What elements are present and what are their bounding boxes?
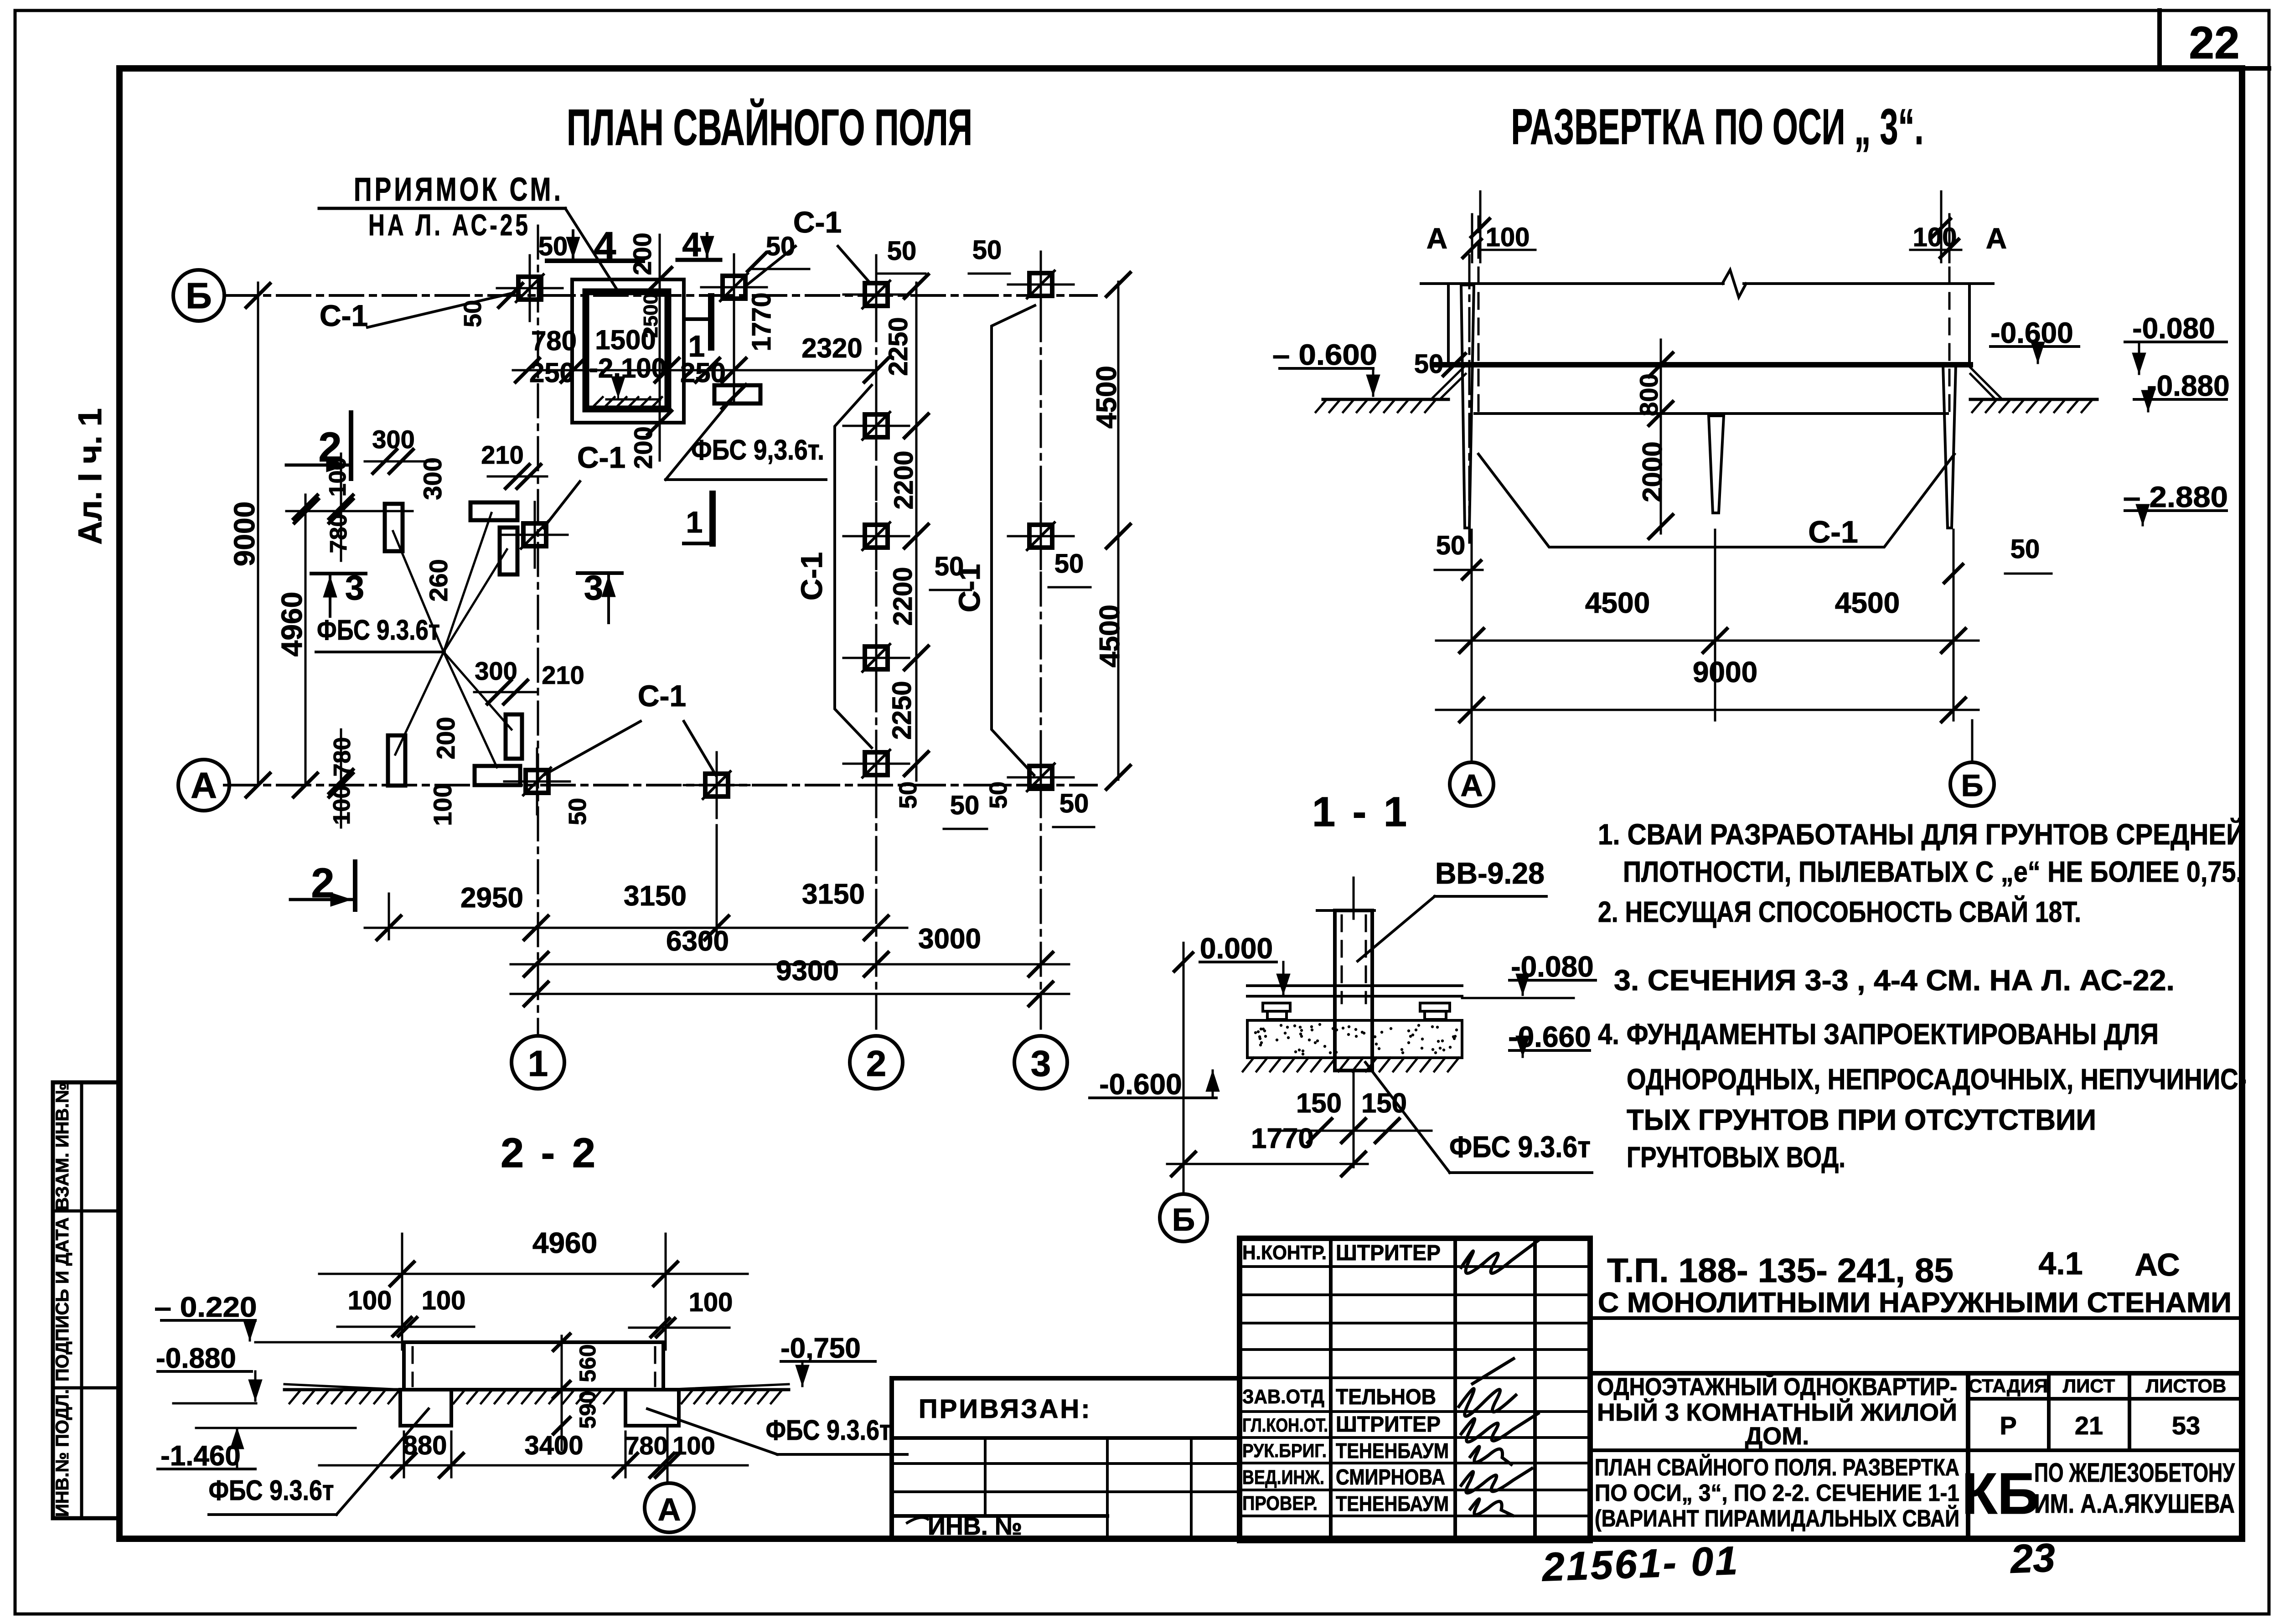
svg-text:2000: 2000 — [1637, 441, 1668, 502]
grid line 1 vertical dash-dot — [537, 226, 539, 1036]
svg-text:ВЗАМ. ИНВ.№: ВЗАМ. ИНВ.№ — [52, 1083, 72, 1210]
section mark 4 left — [547, 259, 643, 263]
axis line B section — [1183, 943, 1185, 1194]
svg-text:50: 50 — [1054, 549, 1084, 579]
svg-text:2250: 2250 — [887, 681, 917, 740]
svg-text:50: 50 — [766, 232, 796, 261]
dim 9000 vertical left — [257, 283, 259, 785]
svg-text:ТЕНЕНБАУМ: ТЕНЕНБАУМ — [1336, 1492, 1449, 1515]
razvertka wall left edge — [1447, 284, 1450, 365]
svg-text:150: 150 — [1361, 1088, 1407, 1118]
svg-text:3: 3 — [1031, 1043, 1051, 1084]
dim chain priyamok 780 1500 250 — [513, 369, 876, 372]
title block right frame — [1590, 1316, 2242, 1320]
svg-text:1770: 1770 — [747, 292, 776, 351]
svg-text:210: 210 — [481, 440, 523, 469]
grid circle 2 — [850, 1036, 903, 1089]
svg-text:ФБС 9,3.6т.: ФБС 9,3.6т. — [691, 434, 824, 466]
svg-text:3. СЕЧЕНИЯ 3-3 , 4-4 СМ. НА: 3. СЕЧЕНИЯ 3-3 , 4-4 СМ. НА Л. АС-22. — [1614, 964, 2175, 997]
svg-text:1. СВАИ РАЗРАБОТАНЫ ДЛЯ ГРУ: 1. СВАИ РАЗРАБОТАНЫ ДЛЯ ГРУНТОВ СРЕДНЕЙ — [1598, 817, 2245, 851]
svg-text:Б: Б — [1172, 1202, 1195, 1237]
svg-text:250: 250 — [529, 357, 575, 388]
razvertka left slope wedge — [1433, 367, 1463, 398]
svg-text:4960: 4960 — [275, 592, 308, 657]
razvertka ground line right with hatch — [1970, 398, 2097, 401]
dim 1770 vertical rotated — [733, 301, 735, 401]
title block signature table frame — [1240, 1238, 1590, 1541]
svg-text:250: 250 — [680, 357, 726, 388]
razvertka grillage bottom line — [1475, 412, 1948, 415]
dim 1770 in section — [1167, 1163, 1368, 1165]
sheet number box 22 top-right — [2157, 10, 2162, 68]
svg-text:4: 4 — [682, 226, 701, 264]
axis circle B — [173, 270, 224, 321]
svg-text:50: 50 — [1414, 349, 1444, 379]
axis circle A — [178, 760, 229, 811]
svg-text:ЗАВ.ОТД: ЗАВ.ОТД — [1242, 1386, 1324, 1408]
svg-text:50: 50 — [538, 232, 568, 261]
svg-text:100: 100 — [348, 1286, 392, 1315]
svg-text:4.1: 4.1 — [2038, 1246, 2083, 1281]
svg-text:-1.460: -1.460 — [160, 1440, 241, 1472]
svg-text:780: 780 — [329, 737, 356, 777]
svg-text:200: 200 — [431, 717, 460, 759]
svg-text:560: 560 — [575, 1344, 600, 1382]
dim chain 2250 2200 2200 2250 grid2 — [915, 283, 918, 781]
svg-text:ТЕНЕНБАУМ: ТЕНЕНБАУМ — [1336, 1439, 1449, 1463]
svg-text:ПЛАН СВАЙНОГО ПОЛЯ: ПЛАН СВАЙНОГО ПОЛЯ — [567, 99, 972, 156]
svg-text:ФБС 9.3.6т: ФБС 9.3.6т — [209, 1475, 334, 1506]
svg-text:РУК.БРИГ.: РУК.БРИГ. — [1242, 1440, 1327, 1461]
svg-text:ПРИВЯЗАН:: ПРИВЯЗАН: — [919, 1394, 1092, 1424]
svg-text:3: 3 — [584, 569, 603, 607]
axis A horizontal dash-dot — [224, 784, 1096, 786]
axis circle B section — [1160, 1194, 1207, 1241]
razvertka grillage top thick line — [1433, 362, 1970, 367]
grid line 2 vertical dash-dot — [875, 255, 878, 1036]
svg-text:С-1: С-1 — [1808, 515, 1858, 549]
svg-text:50: 50 — [972, 235, 1002, 265]
svg-text:(ВАРИАНТ ПИРАМИДАЛЬНЫХ СВАЙ: (ВАРИАНТ ПИРАМИДАЛЬНЫХ СВАЙ — [1595, 1505, 1959, 1532]
section marks A top of razvertka right — [1940, 191, 1943, 262]
svg-text:2. НЕСУЩАЯ СПОСОБНОСТЬ СВАЙ: 2. НЕСУЩАЯ СПОСОБНОСТЬ СВАЙ 18Т. — [1598, 895, 2081, 928]
svg-text:С-1: С-1 — [320, 299, 368, 332]
svg-text:23: 23 — [2009, 1535, 2056, 1581]
dim 200 2500 200 vertical at priyamok — [659, 235, 661, 460]
footing block left 2-2 — [400, 1390, 451, 1426]
svg-text:С-1: С-1 — [793, 205, 842, 239]
svg-text:100: 100 — [329, 786, 355, 825]
priyamok pit outer rectangle — [572, 279, 684, 423]
svg-text:СМИРНОВА: СМИРНОВА — [1336, 1465, 1445, 1490]
pile left axis dash line — [1478, 217, 1480, 414]
svg-text:ФБС 9.3.6т: ФБС 9.3.6т — [317, 615, 440, 646]
razvertka wall top line with break — [1421, 282, 1723, 285]
svg-text:210: 210 — [542, 661, 584, 689]
svg-text:780: 780 — [531, 326, 577, 356]
ground hatch under concrete bed — [1243, 1058, 1254, 1071]
intermediate pile row small dims 100 780 — [340, 454, 342, 561]
svg-text:100: 100 — [422, 1286, 466, 1315]
svg-text:А: А — [1986, 222, 2007, 255]
svg-text:3150: 3150 — [802, 879, 865, 910]
svg-text:Т.П. 188- 135- 241, 85: Т.П. 188- 135- 241, 85 — [1607, 1252, 1953, 1289]
svg-text:780: 780 — [326, 514, 352, 553]
svg-text:А: А — [658, 1492, 681, 1527]
privyazan table — [892, 1378, 1240, 1539]
svg-text:100: 100 — [325, 457, 351, 497]
svg-text:3: 3 — [345, 569, 364, 607]
svg-text:АС: АС — [2134, 1247, 2180, 1283]
svg-text:4500: 4500 — [1094, 605, 1126, 667]
slope wedge right 2-2 — [663, 1384, 789, 1390]
section mark 2 top — [286, 464, 347, 467]
plan bottom dim 9300 — [511, 993, 1069, 995]
svg-text:1 - 1: 1 - 1 — [1312, 789, 1410, 835]
svg-text:Б: Б — [186, 275, 212, 316]
pile right axis dash line — [1948, 217, 1951, 414]
svg-text:0.000: 0.000 — [1200, 932, 1273, 965]
svg-text:НА Л. АС-25: НА Л. АС-25 — [368, 208, 531, 242]
svg-text:ПО ЖЕЛЕЗОБЕТОНУ: ПО ЖЕЛЕЗОБЕТОНУ — [2034, 1458, 2235, 1488]
piles C-1 intermediate rows — [843, 425, 909, 427]
svg-text:800: 800 — [1634, 373, 1663, 416]
pile right tapered in razvertka — [1943, 365, 1956, 528]
svg-text:300: 300 — [372, 425, 414, 454]
beam rectangle 2-2 — [404, 1342, 663, 1390]
svg-text:ПРОВЕР.: ПРОВЕР. — [1242, 1492, 1318, 1515]
svg-text:ПЛОТНОСТИ, ПЫЛЕВАТЫХ С „е“ Н: ПЛОТНОСТИ, ПЫЛЕВАТЫХ С „е“ НЕ БОЛЕЕ 0,75… — [1623, 855, 2243, 888]
priyamok bottom hatch — [593, 397, 603, 407]
section mark 3 left — [311, 572, 366, 575]
svg-text:1770: 1770 — [1251, 1123, 1314, 1154]
svg-text:9000: 9000 — [228, 502, 261, 566]
grid circle 3 — [1014, 1036, 1067, 1089]
razvertka bottom dims 4500 4500 — [1471, 530, 1473, 720]
razvertka ground line left with hatch — [1323, 398, 1448, 401]
svg-text:50: 50 — [950, 791, 980, 820]
svg-text:-0.600: -0.600 — [1099, 1068, 1182, 1101]
svg-text:ВЕД.ИНЖ.: ВЕД.ИНЖ. — [1242, 1466, 1324, 1489]
svg-text:100: 100 — [1486, 222, 1530, 252]
dim 800 2000 vertical razvertka — [1660, 340, 1662, 533]
svg-text:150: 150 — [1296, 1088, 1342, 1118]
svg-text:Н.КОНТР.: Н.КОНТР. — [1242, 1241, 1327, 1264]
svg-text:C-1: C-1 — [795, 552, 828, 600]
svg-text:2950: 2950 — [460, 882, 523, 914]
svg-text:2 - 2: 2 - 2 — [501, 1130, 598, 1176]
svg-text:4960: 4960 — [532, 1226, 597, 1259]
svg-text:3000: 3000 — [918, 923, 981, 955]
svg-text:3400: 3400 — [524, 1431, 583, 1460]
svg-text:ТЫХ ГРУНТОВ ПРИ ОТСУТСТВИ: ТЫХ ГРУНТОВ ПРИ ОТСУТСТВИИ — [1627, 1103, 2096, 1136]
svg-text:ГЛ.КОН.ОТ.: ГЛ.КОН.ОТ. — [1242, 1414, 1328, 1436]
plan bottom dim chain 2950 3150 3150 — [365, 927, 907, 929]
svg-text:С-1: С-1 — [577, 440, 625, 474]
dim 4960 vertical left — [305, 495, 307, 785]
svg-text:50: 50 — [459, 300, 486, 327]
svg-text:50: 50 — [1436, 531, 1466, 560]
svg-text:ПРИЯМОК СМ.: ПРИЯМОК СМ. — [354, 171, 563, 208]
piles C-1 on axis B — [497, 287, 563, 290]
svg-text:590: 590 — [575, 1391, 600, 1428]
plan bottom dim 6300 3000 — [511, 963, 1069, 966]
axis circle B razvertka — [1971, 720, 1974, 762]
svg-text:50: 50 — [935, 552, 964, 581]
pile middle tapered in razvertka — [1709, 416, 1724, 513]
pile left tapered in razvertka — [1461, 285, 1474, 528]
svg-text:880: 880 — [403, 1431, 447, 1460]
svg-text:2250: 2250 — [884, 317, 913, 376]
section marks A top of razvertka left — [1471, 214, 1473, 262]
grid line 3 vertical dash-dot — [1040, 255, 1042, 1036]
svg-text:С-1: С-1 — [638, 679, 686, 713]
razvertka bottom dim 9000 — [1436, 709, 1979, 711]
dim 150 150 in section — [1353, 1071, 1355, 1167]
dim chain 4500 4500 grid3 right — [1117, 282, 1120, 780]
svg-text:ПОДПИСЬ И ДАТА: ПОДПИСЬ И ДАТА — [52, 1217, 72, 1381]
svg-text:4. ФУНДАМЕНТЫ ЗАПРОЕКТИРОВАНЫ: 4. ФУНДАМЕНТЫ ЗАПРОЕКТИРОВАНЫ ДЛЯ — [1598, 1018, 2159, 1050]
support pad right — [1420, 1003, 1450, 1011]
svg-text:-2.100: -2.100 — [589, 353, 667, 383]
priyamok pit inner thick rectangle — [586, 292, 668, 409]
left stamp column boxes — [53, 1082, 119, 1518]
svg-text:ИНВ.№ ПОДЛ.: ИНВ.№ ПОДЛ. — [52, 1389, 72, 1517]
section mark 3 right — [578, 571, 622, 575]
svg-text:2200: 2200 — [888, 567, 918, 626]
section mark 4 right — [677, 258, 720, 262]
svg-text:СТАДИЯ: СТАДИЯ — [1969, 1375, 2048, 1396]
svg-text:21561- 01: 21561- 01 — [1540, 1538, 1740, 1590]
axis circle A 2-2 — [667, 1427, 669, 1483]
svg-text:2: 2 — [866, 1043, 887, 1084]
svg-text:3150: 3150 — [624, 880, 687, 912]
svg-text:4500: 4500 — [1091, 366, 1122, 429]
section mark 2 bottom — [290, 898, 351, 901]
excavation outline trapezoid — [1478, 454, 1954, 547]
svg-text:ФБС 9.3.6т: ФБС 9.3.6т — [766, 1415, 891, 1446]
floor slab lines — [1247, 984, 1462, 987]
razvertka right slope wedge — [1970, 367, 2000, 398]
svg-text:ИНВ. №: ИНВ. № — [928, 1513, 1022, 1540]
concrete bed with stipple — [1247, 1020, 1462, 1058]
axis circle A razvertka — [1471, 720, 1473, 762]
svg-text:-0.880: -0.880 — [156, 1343, 236, 1374]
svg-text:780: 780 — [625, 1431, 667, 1460]
svg-text:ДОМ.: ДОМ. — [1745, 1422, 1809, 1450]
svg-text:100: 100 — [1913, 222, 1957, 252]
svg-text:ИМ. А.А.ЯКУШЕВА: ИМ. А.А.ЯКУШЕВА — [2034, 1489, 2235, 1519]
svg-text:53: 53 — [2172, 1411, 2200, 1440]
svg-text:260: 260 — [424, 559, 453, 601]
svg-text:50: 50 — [887, 236, 917, 266]
svg-text:9000: 9000 — [1693, 656, 1757, 688]
svg-text:9300: 9300 — [776, 955, 839, 987]
svg-text:2200: 2200 — [889, 450, 919, 509]
razvertka wall right edge — [1968, 284, 1971, 365]
svg-text:-0,750: -0,750 — [780, 1333, 861, 1364]
svg-text:4500: 4500 — [1585, 586, 1650, 619]
svg-text:100: 100 — [672, 1431, 715, 1460]
svg-text:-0.880: -0.880 — [2147, 369, 2229, 402]
svg-text:50: 50 — [564, 798, 591, 825]
svg-text:ЛИСТ: ЛИСТ — [2063, 1375, 2115, 1396]
svg-text:РАЗВЕРТКА ПО ОСИ „ 3“.: РАЗВЕРТКА ПО ОСИ „ 3“. — [1511, 99, 1924, 155]
svg-text:22: 22 — [2189, 17, 2239, 68]
svg-text:ЛИСТОВ: ЛИСТОВ — [2146, 1375, 2227, 1396]
svg-text:200: 200 — [628, 233, 656, 275]
dim chain 880 3400 780 100 2-2 — [319, 1464, 748, 1467]
svg-text:ВВ-9.28: ВВ-9.28 — [1435, 856, 1545, 890]
grid circle 1 — [512, 1036, 564, 1089]
svg-text:100: 100 — [428, 783, 457, 826]
svg-text:4: 4 — [594, 223, 616, 269]
intermediate pile row line left upper — [286, 510, 413, 512]
signatures squiggles — [1459, 1240, 1539, 1515]
svg-text:Р: Р — [2000, 1411, 2016, 1440]
ground line 2-2 with hatch — [284, 1388, 789, 1391]
pile BV-9.28 in section — [1335, 910, 1372, 1071]
svg-text:– 0.600: – 0.600 — [1272, 338, 1377, 371]
svg-text:6300: 6300 — [666, 926, 729, 957]
axis B horizontal dash-dot — [224, 294, 1096, 297]
svg-text:2: 2 — [311, 860, 334, 906]
svg-text:ТЕЛЬНОВ: ТЕЛЬНОВ — [1336, 1385, 1436, 1409]
svg-text:300: 300 — [418, 457, 447, 500]
svg-text:С МОНОЛИТНЫМИ НАРУЖНЫМИ СТЕН: С МОНОЛИТНЫМИ НАРУЖНЫМИ СТЕНАМИ — [1598, 1287, 2232, 1319]
svg-text:50: 50 — [2010, 534, 2040, 564]
svg-text:А: А — [1460, 768, 1483, 803]
piles C-1 on axis A — [504, 781, 570, 783]
svg-text:ОДНОРОДНЫХ, НЕПРОСАДОЧНЫХ, Н: ОДНОРОДНЫХ, НЕПРОСАДОЧНЫХ, НЕПУЧИНИС- — [1627, 1063, 2247, 1096]
svg-text:ФБС 9.3.6т: ФБС 9.3.6т — [1449, 1130, 1591, 1164]
svg-text:2320: 2320 — [801, 333, 862, 363]
svg-text:200: 200 — [629, 426, 657, 469]
svg-text:1500: 1500 — [595, 325, 656, 355]
svg-text:1: 1 — [528, 1043, 548, 1084]
svg-text:ОДНОЭТАЖНЫЙ ОДНОКВАРТИР-: ОДНОЭТАЖНЫЙ ОДНОКВАРТИР- — [1597, 1373, 1957, 1401]
dim 4960 top 2-2 — [401, 1234, 403, 1350]
svg-text:Б: Б — [1961, 768, 1984, 803]
slope wedge left 2-2 — [284, 1384, 404, 1390]
svg-text:А: А — [1426, 222, 1447, 255]
svg-text:100: 100 — [689, 1288, 733, 1317]
svg-text:ПО ОСИ„ 3“, ПО 2-2. СЕЧЕНИЕ 1-: ПО ОСИ„ 3“, ПО 2-2. СЕЧЕНИЕ 1-1 — [1595, 1480, 1959, 1506]
svg-text:Ал. I ч. 1: Ал. I ч. 1 — [72, 408, 109, 545]
svg-text:21: 21 — [2075, 1411, 2103, 1440]
footing block right 2-2 — [625, 1390, 679, 1426]
section mark 1 lower — [684, 542, 713, 545]
svg-text:50: 50 — [894, 781, 922, 809]
svg-text:50: 50 — [985, 781, 1012, 809]
svg-text:КБ: КБ — [1962, 1461, 2039, 1526]
svg-text:-0.080: -0.080 — [2132, 312, 2215, 345]
axis A row small dims 780 100 — [340, 729, 342, 828]
FBS blocks horizontal in plan — [470, 502, 517, 520]
svg-text:ГРУНТОВЫХ ВОД.: ГРУНТОВЫХ ВОД. — [1627, 1141, 1845, 1174]
svg-text:4500: 4500 — [1835, 586, 1900, 619]
section mark 1 upper — [686, 317, 711, 321]
svg-text:ШТРИТЕР: ШТРИТЕР — [1336, 1412, 1441, 1437]
svg-text:НЫЙ 3 КОМНАТНЫЙ ЖИЛОЙ: НЫЙ 3 КОМНАТНЫЙ ЖИЛОЙ — [1597, 1398, 1957, 1426]
svg-text:– 0.220: – 0.220 — [155, 1292, 257, 1323]
svg-text:ШТРИТЕР: ШТРИТЕР — [1336, 1241, 1441, 1265]
FBS blocks vertical in plan — [385, 504, 403, 551]
support pad left — [1263, 1003, 1290, 1011]
svg-text:А: А — [191, 765, 217, 806]
svg-text:50: 50 — [1059, 789, 1089, 818]
svg-text:1: 1 — [686, 505, 703, 539]
svg-text:ПЛАН СВАЙНОГО ПОЛЯ. РАЗВЕРТКА: ПЛАН СВАЙНОГО ПОЛЯ. РАЗВЕРТКА — [1595, 1454, 1959, 1481]
